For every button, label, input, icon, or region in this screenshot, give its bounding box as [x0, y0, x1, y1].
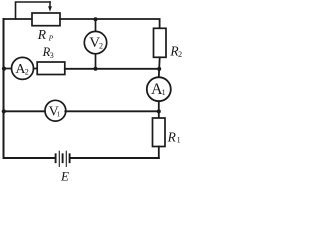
resistor R2 [154, 28, 167, 57]
wire bottom left segment [4, 157, 55, 159]
svg-text:3: 3 [50, 51, 54, 60]
voltmeter V2 [84, 31, 106, 53]
wire V1 rail right [65, 110, 159, 112]
wire V1 rail left [4, 110, 45, 112]
resistor R3 [37, 62, 65, 75]
voltmeter V1 [45, 100, 66, 121]
rheostat RP body [32, 13, 60, 26]
slider arrow [49, 2, 51, 7]
svg-text:2: 2 [99, 42, 103, 51]
wire slider tap [16, 2, 51, 19]
node junction V2 top [94, 17, 98, 21]
node junction middle rail right [157, 67, 161, 71]
svg-text:1: 1 [57, 110, 61, 118]
node junction V1 rail right [157, 109, 161, 113]
wire A2 to R3 [34, 68, 38, 70]
wire top left segment [4, 18, 33, 20]
wire top right segment [60, 19, 160, 28]
wire middle rail [65, 68, 159, 70]
wire left border [3, 19, 5, 158]
svg-text:2: 2 [178, 50, 182, 59]
node junction V2 bottom [94, 67, 98, 71]
svg-text:R: R [167, 129, 177, 144]
battery E [56, 151, 70, 166]
label RP [37, 27, 54, 43]
svg-text:2: 2 [25, 67, 29, 76]
node junction A2 rail left [2, 67, 6, 71]
resistor R1 [153, 118, 166, 147]
ammeter A1 [147, 77, 171, 101]
svg-text:1: 1 [177, 135, 181, 144]
svg-text:R: R [37, 27, 47, 42]
label R1 [167, 129, 181, 144]
wire bottom right segment [71, 157, 159, 159]
wire A1 to R1 [158, 101, 160, 118]
label R3 [42, 45, 54, 60]
wire R1 to bottom [158, 147, 160, 159]
svg-text:E: E [60, 168, 69, 183]
wire V2 bottom stub [95, 54, 97, 69]
svg-text:P: P [48, 34, 54, 43]
wire A2 stub [4, 68, 12, 70]
wire V2 top stub [95, 19, 97, 32]
wire R2 to A1 [158, 57, 161, 77]
label E [60, 168, 69, 183]
label R2 [169, 44, 182, 60]
node junction V1 rail left [2, 109, 6, 113]
svg-text:1: 1 [162, 88, 166, 97]
ammeter A2 [12, 57, 34, 79]
